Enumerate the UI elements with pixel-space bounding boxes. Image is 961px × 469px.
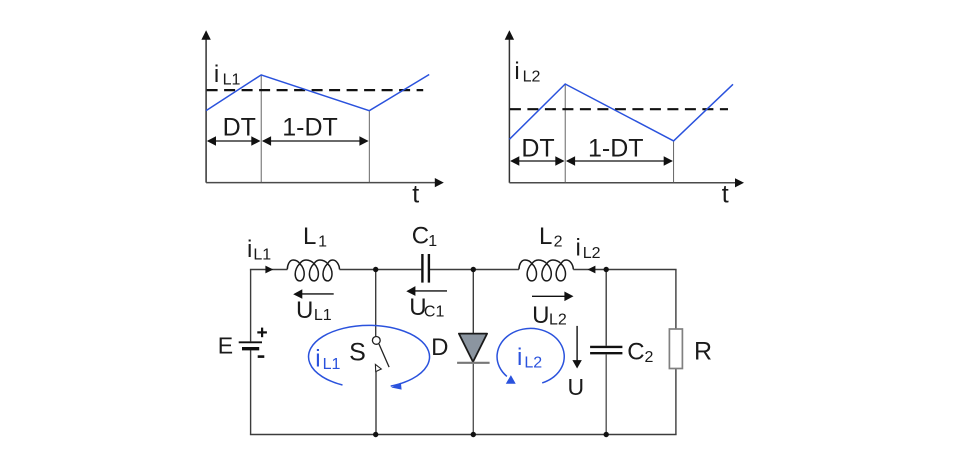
- minus sign: [258, 355, 265, 358]
- diode triangle (anode): [459, 334, 487, 362]
- svg-text:L2: L2: [549, 312, 567, 329]
- switch pivot circle: [372, 337, 380, 345]
- svg-text:C: C: [412, 222, 429, 249]
- dashed average-current line: [207, 89, 424, 91]
- svg-text:R: R: [694, 338, 712, 366]
- wire: L1 to C1: [340, 269, 422, 271]
- battery E (long + plate, short - plate): [239, 341, 262, 343]
- arrow i_L2 on top rail: [588, 266, 596, 274]
- 1-DT dimension arrow: [567, 160, 671, 162]
- svg-text:t: t: [412, 180, 419, 208]
- 1-DT dimension arrow: [263, 140, 367, 142]
- svg-text:DT: DT: [223, 113, 256, 141]
- blue inductor-current waveform i_L2: [509, 84, 733, 141]
- svg-text:2: 2: [554, 233, 563, 250]
- svg-text:C1: C1: [424, 304, 445, 321]
- DT dimension arrow: [511, 160, 563, 162]
- svg-text:i: i: [576, 235, 581, 262]
- arrow U_L2 (points right): [532, 295, 565, 297]
- svg-text:1: 1: [318, 233, 327, 250]
- svg-text:L2: L2: [524, 354, 542, 371]
- node: C1/diode: [471, 267, 476, 272]
- svg-text:L1: L1: [223, 71, 241, 88]
- vertical marker line at DT: [260, 75, 262, 183]
- node: C2/bottom rail: [604, 432, 609, 437]
- graph axes (i_L1 vs t): [205, 40, 207, 183]
- svg-text:D: D: [431, 334, 448, 361]
- svg-text:2: 2: [645, 349, 654, 366]
- graph axes (i_L2 vs t): [508, 40, 510, 183]
- node: L1/C1/switch: [373, 267, 378, 272]
- diode D: wire from top rail to anode: [472, 270, 474, 334]
- svg-text:L2: L2: [583, 245, 601, 262]
- svg-text:U: U: [296, 297, 313, 324]
- svg-text:L1: L1: [253, 246, 271, 263]
- switch blade (open): [379, 344, 389, 367]
- svg-text:t: t: [722, 181, 729, 209]
- plus sign: [257, 331, 267, 333]
- svg-text:L1: L1: [323, 356, 341, 373]
- wire: bottom rail: [250, 434, 677, 436]
- DT dimension arrow: [208, 140, 259, 142]
- resistor R: [669, 329, 682, 369]
- svg-text:DT: DT: [521, 134, 554, 162]
- switch S: wire from top rail down to pivot: [375, 270, 377, 337]
- arrow i_L1 on top rail: [265, 266, 273, 274]
- svg-text:L: L: [539, 223, 552, 250]
- blue loop arrow i_L1 (around switch mesh): [309, 325, 430, 386]
- arrow U_C1 (points left): [415, 290, 447, 292]
- svg-text:E: E: [218, 332, 233, 358]
- svg-text:U: U: [532, 302, 549, 329]
- svg-text:1: 1: [428, 233, 437, 250]
- blue inductor-current waveform i_L1: [206, 75, 429, 111]
- diode cathode bar: [457, 362, 490, 364]
- switch fixed-contact triangle: [375, 364, 381, 371]
- node: switch/bottom rail: [373, 432, 378, 437]
- wire: C1 to L2: [430, 269, 519, 271]
- vertical marker line at T: [673, 141, 675, 183]
- wire: L2 to top-right corner: [573, 269, 676, 271]
- svg-text:L2: L2: [523, 69, 541, 86]
- wire: switch to bottom rail: [375, 372, 377, 435]
- wire: left side lower (battery to bottom rail): [250, 350, 252, 434]
- arrow U (output voltage, points down): [576, 326, 578, 361]
- wire: right side lower (R to bottom rail): [675, 368, 677, 435]
- svg-text:U: U: [568, 374, 585, 400]
- node: L2/C2: [604, 267, 609, 272]
- svg-text:i: i: [315, 346, 320, 373]
- inductor L1: [287, 260, 339, 281]
- svg-text:C: C: [627, 338, 644, 365]
- svg-text:i: i: [514, 58, 519, 85]
- svg-text:S: S: [349, 338, 366, 366]
- wire: top rail left corner to L1: [250, 269, 288, 271]
- svg-text:L1: L1: [314, 307, 332, 324]
- node: diode/bottom rail: [471, 432, 476, 437]
- svg-text:i: i: [517, 344, 522, 371]
- wire: C2 to bottom rail: [605, 354, 607, 434]
- svg-text:1-DT: 1-DT: [588, 134, 644, 162]
- inductor L2: [519, 260, 573, 281]
- wire: diode to bottom rail: [472, 364, 474, 435]
- svg-text:i: i: [247, 236, 252, 263]
- capacitor C1 (series, two vertical plates): [421, 254, 423, 283]
- svg-text:i: i: [214, 61, 219, 88]
- wire: left side upper (corner to battery): [250, 270, 252, 342]
- blue loop arrow i_L2 (around output mesh): [497, 328, 564, 382]
- wire: right side upper (corner to R): [675, 270, 677, 330]
- dashed average-current line: [510, 108, 728, 110]
- wire: top rail node to C2: [605, 270, 607, 346]
- vertical marker line at DT: [564, 84, 566, 183]
- svg-text:1-DT: 1-DT: [282, 113, 338, 141]
- vertical marker line at T: [368, 111, 370, 183]
- capacitor C2 (two horizontal plates): [590, 346, 622, 348]
- svg-text:L: L: [303, 223, 316, 250]
- arrow U_L1 (points left): [302, 293, 334, 295]
